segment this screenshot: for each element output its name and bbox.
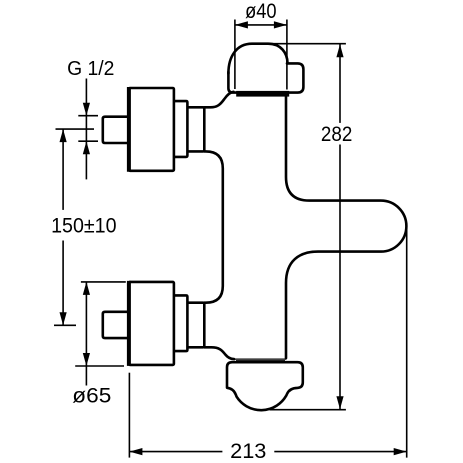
left ear of dome (228, 72, 236, 93)
lower-left body curve to bottom flange (204, 347, 234, 359)
bottom outlet (hose connection) (227, 362, 303, 410)
arrow G1/2 up (83, 141, 90, 154)
dim 213 line right part (274, 451, 406, 453)
bottom knob assembly (103, 282, 205, 365)
dim 282 line lower part (339, 145, 341, 410)
arrow ø40 right (274, 21, 287, 28)
dim G1/2 vertical line (85, 79, 87, 180)
dim 150 vertical line lower part (62, 241, 64, 326)
dim ø40 left extension (234, 20, 236, 90)
top knob body rectangle (129, 88, 174, 171)
arrow ø65 down (83, 353, 90, 366)
svg-text:282: 282 (321, 123, 352, 146)
dim 150 vertical line upper part (62, 129, 64, 210)
dome seam band (thick black bar) (236, 91, 289, 97)
dim ø65 vertical line (85, 282, 87, 386)
svg-text:213: 213 (230, 440, 266, 463)
bottom knob thick left edge (127, 281, 131, 366)
dim G1/2 upper tick (78, 115, 98, 117)
arrow ø65 up (83, 282, 90, 295)
right ear of dome (287, 63, 303, 92)
dim 282 bottom extension (270, 409, 346, 411)
arrow 213 right (394, 448, 407, 455)
dim ø40 right extension (286, 20, 288, 90)
arrow 150 down (60, 312, 67, 325)
dim 213 left extension (128, 373, 130, 458)
dim G1/2 lower tick (78, 140, 98, 142)
svg-text:ø65: ø65 (72, 384, 111, 407)
arrow 282 down (336, 396, 343, 409)
left body edge between knobs (204, 151, 223, 302)
dim ø65 bottom tick (75, 365, 124, 367)
dimension graphics (54, 20, 407, 458)
bottom knob body rectangle (129, 282, 174, 365)
bottom knob step 2 (187, 303, 204, 348)
bottom flange seam thin line (233, 358, 286, 360)
arrow G1/2 down (83, 103, 90, 116)
bottom flange second seam line (236, 360, 285, 362)
bottom knob G1/2 stem (103, 312, 129, 338)
bottom knob step 1 (174, 295, 188, 351)
dim ø65 top tick (81, 281, 126, 283)
svg-text:G 1/2: G 1/2 (67, 57, 114, 80)
svg-text:150±10: 150±10 (51, 214, 116, 237)
dim 150 top tick (56, 128, 95, 130)
body right edge with pipe U-turn to shower outlet (286, 96, 406, 358)
arrow ø40 left (235, 21, 248, 28)
top knob step 2 (187, 107, 204, 151)
dim 150 bottom tick (54, 324, 76, 326)
top knob step 1 (174, 101, 188, 157)
svg-text:ø40: ø40 (245, 0, 277, 23)
top knob G1/2 stem (103, 117, 129, 143)
top knob assembly (103, 88, 205, 171)
top knob thick left edge (127, 87, 131, 172)
top dome (shower arm connection cap) (228, 44, 287, 74)
arrow 282 up (336, 44, 343, 57)
arrow 213 left (129, 448, 142, 455)
dim 213 right extension (406, 226, 408, 458)
arrow 150 up (60, 129, 67, 142)
dim 213 line left part (129, 451, 222, 453)
dim 282 top extension (265, 43, 346, 45)
dim 282 line upper part (339, 44, 341, 123)
left S-curve from dome to top knob step (204, 92, 233, 108)
dim ø40 line (235, 24, 287, 26)
